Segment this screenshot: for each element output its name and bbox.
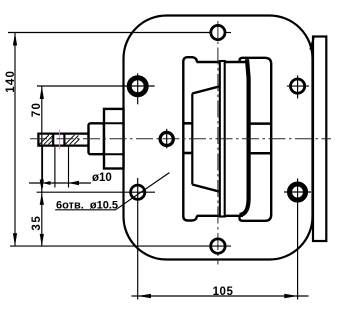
side plate chamfer: [310, 37, 314, 50]
105 right: [284, 294, 297, 298]
svg-text:140: 140: [5, 70, 17, 93]
bore line lower: [183, 152, 192, 155]
ext line 140 bottom / bottom hole h-line: [10, 245, 231, 247]
shaft divider 2: [63, 133, 65, 147]
svg-text:70: 70: [31, 102, 43, 117]
hole small middle-left: [160, 132, 173, 145]
140 bottom: [13, 233, 17, 246]
vertical centerline: [217, 21, 219, 265]
right drum block outline: [240, 58, 272, 221]
housing bottom edge: [197, 215, 244, 217]
dim line d10: [29, 182, 91, 184]
svg-text:ø10: ø10: [92, 172, 112, 184]
bore line upper: [183, 122, 192, 125]
dim line 70 + 35: [41, 86, 43, 246]
shaft outline: [38, 134, 88, 146]
35 bottom: [40, 234, 44, 246]
svg-text:35: 35: [31, 215, 43, 231]
small hole v-line: [166, 129, 168, 149]
shaft divider 1: [52, 133, 54, 147]
boss division upper: [104, 122, 124, 124]
side plate: [313, 37, 326, 242]
cone bottom diagonal: [192, 185, 220, 192]
UL hole v-line: [137, 73, 139, 104]
drum division upper: [251, 122, 271, 125]
140 top: [13, 33, 17, 46]
UR hole v-line: [297, 75, 299, 98]
hole top center: [211, 25, 225, 39]
hatch cell 2: [65, 135, 79, 144]
d10 right: [69, 181, 80, 185]
svg-text:6отв. ø10.5: 6отв. ø10.5: [56, 199, 118, 211]
70 top: [40, 86, 44, 99]
housing top edge: [197, 61, 247, 63]
35 top: [40, 193, 44, 205]
dim line 140: [14, 33, 16, 247]
collar: [89, 123, 105, 154]
ext lines d10: [42, 147, 44, 188]
ext line 140 top / top hole h-line: [8, 32, 211, 34]
boss division lower: [104, 153, 124, 155]
LR hole v-line + 105 ext: [297, 179, 299, 300]
housing left tab: [183, 57, 197, 220]
70 bottom: [40, 180, 44, 192]
hatch cell 1: [40, 135, 53, 144]
leader 6otv: [116, 173, 170, 210]
horizontal centerline: [30, 138, 331, 140]
hole bottom center: [211, 239, 225, 253]
cone left edge: [191, 94, 193, 185]
dim line 105: [132, 295, 309, 297]
pink centerline on shaft: [59, 130, 61, 150]
cone top diagonal: [192, 86, 220, 93]
LL hole h-line + ext: [37, 191, 155, 193]
flange plate outline: [124, 16, 313, 260]
LR hole h-line: [284, 191, 311, 193]
arrows: [13, 33, 298, 299]
drum inner wall bar: [240, 59, 249, 215]
hole upper-left (thick): [129, 78, 146, 95]
UL hole h-line + 70 ext: [37, 85, 155, 87]
UR hole h-line: [287, 85, 309, 87]
hole lower-left: [131, 185, 145, 199]
d10 left: [43, 181, 51, 185]
crosses / extension lines: [8, 33, 311, 300]
svg-text:105: 105: [213, 286, 234, 298]
disc plate: [220, 61, 225, 217]
boss: [104, 109, 124, 169]
105 left: [138, 294, 151, 298]
LL hole v-line + 105 ext: [137, 178, 139, 300]
hole upper-right: [291, 79, 305, 93]
drum division lower: [251, 152, 271, 155]
hole lower-right (thick): [290, 184, 306, 200]
